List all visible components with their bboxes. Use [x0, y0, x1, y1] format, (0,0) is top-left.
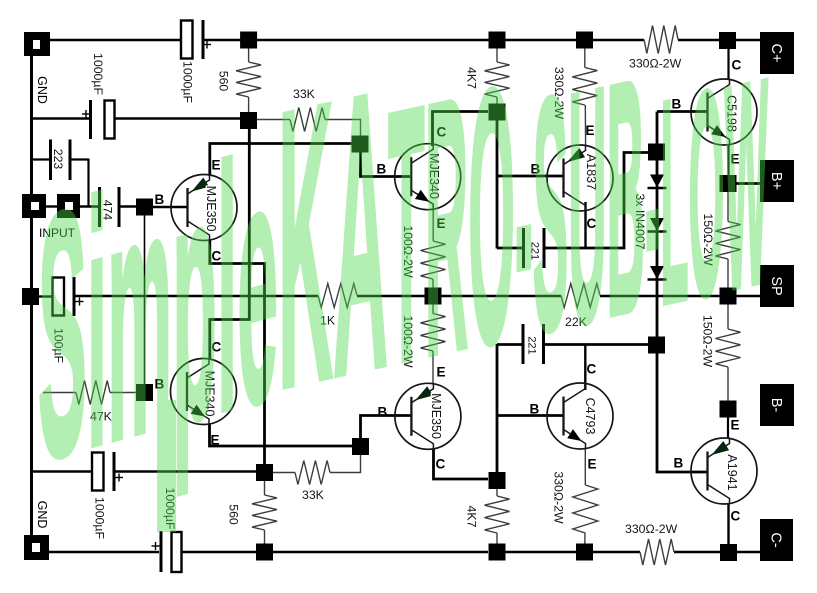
- transistor Q7 C4793: [547, 383, 613, 450]
- wire 223 branch: [33, 159, 89, 207]
- label 33K #2: [302, 488, 325, 502]
- wire bases Q6 Q7 y=415.5: [497, 414, 564, 417]
- diode D2 1N4007: [648, 218, 667, 232]
- svg-text:1000µF: 1000µF: [91, 53, 105, 95]
- label 4K7 #2: [465, 506, 479, 528]
- svg-text:B+: B+: [768, 172, 784, 190]
- label 1000uF #3: [93, 497, 107, 539]
- resistor 4K7 #2: [485, 489, 510, 544]
- svg-text:C-: C-: [768, 532, 784, 547]
- wire Q2 collector to 4K7 node: [433, 112, 489, 147]
- terminal C-: [760, 519, 793, 561]
- svg-text:33K: 33K: [302, 488, 325, 502]
- capacitor 223: [49, 140, 72, 181]
- pin C Q5: [212, 340, 222, 355]
- transistor Q6 MJE350: [395, 383, 461, 450]
- transistor Q2 MJE340: [395, 143, 461, 210]
- capacitor 1000uF #4: [152, 531, 182, 572]
- pin E Q2: [437, 216, 446, 231]
- terminal SP: [760, 265, 794, 307]
- wire node to Q2 base: [361, 152, 411, 177]
- svg-text:-LOW: -LOW: [645, 18, 768, 369]
- wire bottom rail y=552: [49, 551, 760, 554]
- wire A1837 collector down: [584, 202, 586, 249]
- node pad B+ junction: [720, 175, 737, 192]
- resistor 150ohm-2W #1: [716, 192, 741, 288]
- pin B Q1: [155, 192, 165, 207]
- label 221 #2: [526, 336, 538, 354]
- node pad 4K7 bottom: [489, 104, 506, 121]
- wire Q6 collector to node: [434, 449, 489, 480]
- wire Q1 collector down to node: [210, 241, 265, 465]
- svg-text:C: C: [731, 509, 741, 524]
- resistor 33K #2: [273, 455, 361, 485]
- svg-text:B: B: [674, 456, 684, 471]
- wire left GND rail x=31.5: [30, 55, 33, 536]
- label 22K: [565, 315, 588, 329]
- pin E Q7: [588, 457, 597, 472]
- label 330ohm-2W #2 top: [629, 57, 682, 71]
- label MJE350 Q6: [429, 393, 443, 439]
- pin B Q5: [155, 377, 165, 392]
- label C5198 Q4: [725, 95, 739, 132]
- terminal B-: [760, 384, 794, 426]
- node pad Q6 C / 4K7-2: [489, 472, 506, 489]
- label C4793 Q7: [583, 398, 597, 435]
- diode D1 1N4007: [648, 175, 667, 189]
- transistor Q1 MJE350: [171, 174, 237, 241]
- wire C4793 collector up: [584, 344, 586, 390]
- pin E Q1: [212, 158, 221, 173]
- svg-text:330Ω-2W: 330Ω-2W: [625, 522, 678, 536]
- transistor Q3 A1837: [547, 145, 613, 212]
- pin C Q6: [436, 457, 446, 472]
- pin B Q6: [378, 405, 388, 420]
- node pad top rail / 4K7: [489, 32, 506, 49]
- wire SP rail y=296: [39, 295, 760, 298]
- terminal GND bottom: [24, 535, 49, 560]
- wire x=497 mid vertical: [496, 344, 499, 473]
- label 223: [51, 149, 65, 170]
- resistor 100ohm-2W #2: [421, 305, 446, 384]
- label 150ohm-2W #1: [701, 213, 715, 266]
- svg-text:4K7: 4K7: [465, 506, 479, 528]
- label 560 #2: [227, 504, 241, 525]
- svg-text:A1941: A1941: [725, 454, 739, 490]
- label 1K: [320, 314, 336, 328]
- resistor 1K: [318, 284, 357, 308]
- svg-text:KA: KA: [278, 6, 388, 472]
- wire top rail y=40: [50, 39, 760, 42]
- label 4K7 #1: [465, 67, 479, 89]
- wire diode chain: [656, 161, 659, 338]
- label 560 #1: [217, 71, 231, 92]
- svg-text:560: 560: [217, 71, 231, 92]
- node pad bottom rail 560-2: [256, 544, 273, 561]
- wire C5198 collector: [727, 49, 729, 80]
- label 47K: [90, 410, 113, 424]
- node pad top rail / 330ohm: [576, 32, 593, 49]
- wire A1941 emitter: [727, 418, 729, 439]
- wire INPUT to 474 to node B: [46, 205, 188, 208]
- node pad E/33K2 junction: [352, 438, 369, 455]
- svg-text:560: 560: [227, 504, 241, 525]
- svg-text:E: E: [588, 457, 597, 472]
- wire 1000uF-3 branch y=471.5: [32, 470, 257, 472]
- node pad diode top: [648, 144, 665, 161]
- capacitor 221 #2: [522, 324, 546, 364]
- terminal B+: [760, 160, 794, 202]
- svg-text:SP: SP: [768, 276, 784, 295]
- label MJE350 Q1: [204, 186, 218, 232]
- capacitor 100uF: [53, 277, 84, 316]
- capacitor 221 #1: [522, 228, 546, 268]
- pin B Q3: [531, 162, 541, 177]
- capacitor 1000uF #2: [82, 100, 115, 139]
- pin B Q2: [377, 162, 387, 177]
- svg-text:C4793: C4793: [583, 398, 597, 435]
- label 474: [101, 200, 115, 221]
- svg-text:TRO: TRO: [388, 11, 515, 441]
- wire C5198 emitter to B+ node: [727, 145, 729, 176]
- resistor 4K7 #1: [485, 49, 510, 104]
- pin C Q4: [732, 58, 742, 73]
- node pad SP rail right: [720, 288, 737, 305]
- resistor 47K: [43, 381, 136, 405]
- node pad 33K2/560-2: [256, 464, 273, 481]
- pin C Q1: [212, 249, 222, 264]
- wire 4K7 node down x=497: [496, 121, 499, 249]
- pin E Q8: [731, 418, 740, 433]
- label 1000uF #1: [181, 61, 195, 103]
- wire B+ node to terminal: [736, 182, 760, 185]
- label 33K #1: [293, 87, 316, 101]
- label 100uF: [52, 328, 66, 364]
- wire diode bottom to A1941 base: [657, 354, 707, 473]
- wire A1941 collector: [727, 504, 729, 544]
- resistor 330ohm-2W #4 bottom horizontal: [640, 539, 674, 565]
- pin E Q4: [731, 152, 740, 167]
- diode D3 1N4007: [648, 266, 667, 280]
- transistor Q8 A1941: [691, 438, 757, 505]
- resistor 560 #2: [252, 481, 277, 544]
- node pad top rail / C5198 C: [719, 32, 736, 49]
- svg-text:B-: B-: [768, 398, 784, 413]
- node pad bottom rail 4K7-2: [489, 544, 506, 561]
- wire Q5 collector link: [210, 129, 250, 359]
- terminal INPUT pad: [57, 194, 80, 218]
- pin C Q7: [587, 362, 597, 377]
- resistor 33K #1: [257, 108, 361, 137]
- capacitor 1000uF #1: [181, 20, 211, 59]
- label 330ohm-2W #4 bottom: [625, 522, 678, 536]
- node pad 47K/base: [136, 384, 153, 401]
- node pad B- junction: [720, 401, 737, 418]
- label 330ohm-2W #1: [552, 67, 566, 120]
- node pad input base: [136, 199, 153, 216]
- resistor 100ohm-2W #1: [421, 210, 446, 289]
- capacitor 1000uF #3: [92, 452, 123, 491]
- label 1000uF #4: [163, 488, 177, 530]
- label 1000uF #2: [91, 53, 105, 95]
- pin B Q8: [674, 456, 684, 471]
- label GND top: [35, 76, 49, 104]
- label A1837 Q3: [584, 154, 598, 190]
- label 150ohm-2W #2: [701, 315, 715, 368]
- label MJE340 Q2: [427, 153, 441, 199]
- wire Q1 emitter to node: [210, 144, 352, 177]
- wire node to Q6 base: [361, 416, 411, 439]
- resistor 150ohm-2W #2: [716, 305, 741, 401]
- terminal C+: [760, 32, 794, 74]
- resistor 330ohm-2W #3 vertical: [573, 449, 598, 544]
- label 330ohm-2W #3: [552, 471, 566, 524]
- wire base feedback x=144.5: [144, 215, 146, 385]
- label A1941 Q8: [725, 454, 739, 490]
- node pad bottom rail 330-2: [576, 544, 593, 561]
- pin B Q7: [530, 402, 540, 417]
- svg-text:B: B: [530, 402, 540, 417]
- label 100ohm-2W #1: [401, 225, 415, 278]
- wire 1000uF-2 branch y=118.5: [33, 117, 241, 119]
- label GND bottom: [35, 501, 49, 529]
- svg-text:330Ω-2W: 330Ω-2W: [552, 471, 566, 524]
- pin C Q2: [437, 125, 447, 140]
- transistor Q5 MJE340: [171, 358, 237, 425]
- pin E Q5: [211, 433, 220, 448]
- wire 221-2 row y=344.5: [497, 343, 648, 346]
- terminal rail at INPUT: [22, 194, 46, 218]
- node pad top rail / 560: [240, 32, 257, 49]
- node pad diode bottom: [648, 337, 665, 354]
- wire 221-1 to diode top: [497, 153, 648, 249]
- wire C5198 base: [657, 112, 707, 145]
- node pad SP rail mid: [425, 288, 442, 305]
- label 100ohm-2W #2: [401, 315, 415, 368]
- pin E Q3: [586, 123, 595, 138]
- pin C Q3: [587, 216, 597, 231]
- pin E Q6: [437, 365, 446, 380]
- pin B Q4: [672, 97, 682, 112]
- transistor Q4 C5198: [691, 79, 757, 146]
- svg-text:1000µF: 1000µF: [181, 61, 195, 103]
- terminal GND top: [24, 32, 50, 56]
- node pad 33K/E/B junction: [352, 136, 369, 153]
- resistor 22K: [561, 284, 600, 308]
- svg-text:C+: C+: [768, 44, 784, 63]
- node pad SP rail left: [22, 288, 39, 305]
- pin C Q8: [731, 509, 741, 524]
- svg-text:-SUB: -SUB: [515, 9, 645, 406]
- wire to A1837 base: [497, 175, 564, 178]
- resistor 560 #1: [236, 49, 261, 113]
- resistor 330ohm-2W #1 vertical: [572, 49, 597, 147]
- label MJE340 Q5: [203, 371, 217, 417]
- svg-text:C: C: [436, 457, 446, 472]
- label INPUT: [39, 226, 76, 240]
- node pad 560/33K junction: [240, 112, 257, 129]
- label 221 #1: [529, 242, 541, 260]
- capacitor 474: [98, 187, 121, 227]
- resistor 330ohm-2W #2 top horizontal: [644, 26, 678, 54]
- node pad bottom rail A1941 C: [720, 544, 737, 561]
- label 3x IN4007: [633, 193, 647, 249]
- svg-text:E: E: [731, 418, 740, 433]
- svg-text:GND: GND: [35, 76, 49, 104]
- wire Q5 emitter to node: [210, 425, 353, 447]
